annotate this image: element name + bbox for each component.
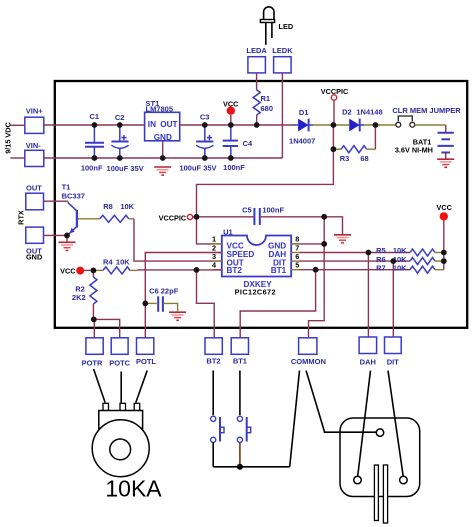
svg-text:100nF: 100nF: [81, 164, 103, 173]
wire BT2 to common rail: [212, 442, 214, 466]
wire LEDA to R1: [256, 73, 258, 90]
svg-text:BT2: BT2: [206, 357, 220, 366]
wire LEDK down to ground rail: [281, 73, 283, 158]
connector OUT (emitter): [26, 227, 44, 243]
diode D1 1N4007: [294, 119, 314, 132]
potentiometer body: [99, 411, 143, 429]
pushbutton BT1: [237, 416, 250, 442]
svg-text:IN: IN: [148, 120, 156, 129]
svg-text:R3: R3: [340, 154, 350, 163]
connector BT1: [231, 338, 248, 355]
svg-text:R5: R5: [376, 246, 386, 255]
resistor R6: [410, 258, 444, 265]
capacitor C4: [223, 125, 238, 158]
svg-text:COMMON: COMMON: [291, 357, 326, 366]
svg-text:LM7805: LM7805: [146, 105, 174, 114]
svg-text:VCCPIC: VCCPIC: [159, 214, 187, 223]
ground (battery): [437, 159, 454, 167]
wire U1 pin5 BT1 down: [300, 269, 411, 271]
main schematic frame: [55, 81, 467, 328]
wire R8 to U1 pin3: [134, 219, 222, 261]
wire R3 right to D2 cathode node: [374, 125, 376, 149]
svg-text:DIT: DIT: [387, 357, 400, 366]
wire DAH to jack: [358, 371, 371, 477]
svg-text:10K: 10K: [120, 202, 134, 211]
resistor R3: [333, 146, 375, 153]
ground (T1 emitter): [59, 242, 76, 250]
svg-text:OUT: OUT: [26, 183, 42, 192]
svg-text:U1: U1: [223, 227, 233, 236]
svg-text:100uF 35V: 100uF 35V: [179, 163, 216, 172]
ground (C6): [169, 312, 186, 320]
wire COMMON to buttons: [290, 371, 300, 467]
wire BT1 lower stub: [239, 442, 241, 466]
resistor R2: [90, 270, 97, 319]
svg-text:VIN+: VIN+: [26, 107, 44, 116]
wire GND net pin8 down to COMMON: [291, 217, 324, 244]
capacitor C6: [145, 296, 177, 312]
svg-text:GND: GND: [26, 252, 42, 261]
svg-text:100nF: 100nF: [223, 163, 245, 172]
connector COMMON: [299, 338, 317, 355]
wire pot external leads: [94, 369, 148, 403]
jack tip lug: [354, 476, 362, 484]
connector POTR: [86, 338, 103, 355]
wire DIT to jack: [388, 371, 403, 477]
node buttons junction: [237, 464, 243, 470]
svg-text:C5: C5: [242, 206, 252, 215]
pin stubs (olive): [214, 244, 300, 270]
pushbutton BT2: [211, 416, 224, 442]
resistor R1: [253, 90, 260, 115]
wire D2 to jumper: [364, 124, 396, 126]
svg-text:POTC: POTC: [109, 359, 130, 368]
ground (C5 / pin8 net): [334, 235, 351, 243]
wire U1 pin6 DIT: [300, 260, 411, 262]
svg-text:3.6V NI-MH: 3.6V NI-MH: [395, 145, 433, 154]
svg-text:10KA: 10KA: [105, 476, 162, 502]
connector BT2: [205, 338, 222, 355]
wire R1 to VCC rail: [256, 115, 258, 125]
jack ring lug: [400, 476, 408, 484]
regulator ST1 LM7805: [145, 112, 180, 141]
svg-text:LEDK: LEDK: [272, 46, 293, 55]
capacitor C2 (electrolytic): [111, 125, 128, 158]
svg-text:T1: T1: [62, 182, 71, 191]
svg-text:BT2: BT2: [227, 266, 243, 275]
svg-text:1N4007: 1N4007: [289, 137, 315, 146]
svg-text:680: 680: [261, 104, 274, 113]
wire U1 pin2 SPEED to POTL: [145, 253, 222, 338]
jack sleeve lug: [376, 429, 383, 436]
svg-text:C2: C2: [115, 113, 125, 122]
svg-text:68: 68: [360, 154, 368, 163]
jack body: [340, 418, 420, 497]
wire R4 to U1 pin4: [137, 269, 222, 271]
diode D2 1N4148: [349, 119, 364, 132]
wire ground rail: [44, 157, 283, 159]
svg-text:C6 22pF: C6 22pF: [149, 286, 179, 295]
svg-text:C3: C3: [200, 112, 210, 121]
wire VCCPIC net down-left to lower flag: [197, 125, 334, 244]
node T1 emitter junction: [66, 235, 68, 241]
wire VCCPIC to C5: [193, 216, 254, 218]
wire R2 bottom to POTR / POTC: [92, 319, 95, 337]
svg-text:5: 5: [295, 261, 299, 270]
svg-text:10K: 10K: [116, 258, 130, 267]
svg-text:C4: C4: [243, 139, 253, 148]
capacitor C3 (electrolytic): [196, 125, 213, 158]
svg-text:BC337: BC337: [62, 192, 85, 201]
resistor R8: [86, 215, 134, 222]
capacitor C5: [254, 208, 259, 225]
wire regulator GND: [162, 141, 164, 158]
svg-text:GND: GND: [154, 133, 172, 142]
svg-text:R7: R7: [376, 263, 386, 272]
svg-text:1N4148: 1N4148: [356, 108, 382, 117]
connector POTC: [111, 338, 128, 355]
svg-text:PIC12C672: PIC12C672: [235, 287, 276, 296]
LED symbol: [260, 7, 274, 45]
wire U1 pin7 DAH: [300, 252, 411, 254]
svg-text:C1: C1: [90, 112, 100, 121]
capacitor C1: [85, 125, 104, 158]
resistor R4: [93, 267, 137, 274]
ground (regulator): [154, 167, 171, 175]
connector DIT: [385, 337, 402, 354]
wire C5 right to ground bend: [261, 217, 343, 234]
svg-text:DAH: DAH: [360, 357, 376, 366]
svg-text:10K: 10K: [393, 263, 407, 272]
connector POTL: [137, 338, 154, 355]
svg-text:D2: D2: [342, 108, 352, 117]
svg-text:R4: R4: [103, 258, 113, 267]
svg-text:9/15 VDC: 9/15 VDC: [3, 121, 12, 153]
wire BT1 external: [239, 371, 241, 416]
svg-text:BT1: BT1: [233, 357, 247, 366]
potentiometer tabs: [103, 403, 140, 411]
wire COMMON to jack sleeve: [306, 371, 376, 433]
svg-text:D1: D1: [299, 108, 309, 117]
svg-text:RTX: RTX: [17, 210, 26, 225]
wire BT2 external: [212, 371, 214, 416]
svg-text:LED: LED: [279, 22, 294, 31]
svg-text:VIN-: VIN-: [26, 141, 42, 150]
svg-text:POTL: POTL: [136, 357, 156, 366]
svg-text:VCC: VCC: [436, 203, 452, 212]
svg-text:LEDA: LEDA: [246, 46, 267, 55]
svg-text:100uF 35V: 100uF 35V: [107, 164, 144, 173]
IC U1 PIC12C672: [222, 236, 291, 277]
svg-text:BT1: BT1: [271, 266, 287, 275]
wire buttons common rail: [213, 466, 290, 468]
wire U1 pin4 BT2 down: [197, 270, 215, 338]
wire VCC top rail: [44, 124, 145, 126]
svg-text:POTR: POTR: [82, 359, 103, 368]
connector DAH: [359, 337, 377, 354]
resistor R5: [410, 249, 444, 256]
svg-text:VCC: VCC: [60, 267, 76, 276]
svg-text:100nF: 100nF: [262, 206, 284, 215]
wire OUT2 to T1 emitter: [44, 234, 68, 236]
wire jumper to battery: [415, 124, 446, 126]
svg-text:OUT: OUT: [160, 120, 177, 129]
battery BAT1: [438, 133, 454, 153]
wire D1 to node: [313, 124, 349, 126]
svg-text:R8: R8: [103, 202, 113, 211]
svg-text:CLR MEM JUMPER: CLR MEM JUMPER: [392, 106, 461, 115]
jack plug prongs: [374, 465, 378, 521]
svg-text:10K: 10K: [393, 246, 407, 255]
wire OUT1 to T1 collector: [44, 200, 69, 202]
svg-text:R1: R1: [261, 94, 271, 103]
svg-text:2K2: 2K2: [72, 293, 86, 302]
transistor T1 BC337: [68, 201, 86, 234]
wire battery to ground: [445, 153, 447, 159]
resistor R7: [410, 253, 444, 274]
svg-text:R2: R2: [75, 285, 85, 294]
